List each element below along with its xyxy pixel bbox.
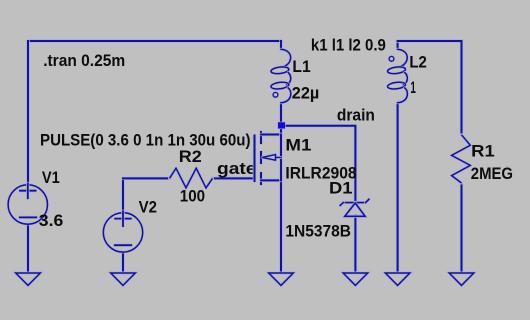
wire top rail right [398, 41, 462, 135]
value IRLR2908 [285, 165, 356, 183]
svg-text:D1: D1 [329, 180, 353, 198]
svg-text:R1: R1 [471, 143, 495, 161]
svg-text:1N5378B: 1N5378B [285, 223, 351, 241]
node gate label [217, 160, 257, 178]
label L1 [292, 58, 310, 76]
svg-text:1: 1 [410, 79, 416, 97]
wire M1 source lead [279, 180, 283, 272]
svg-text:gate: gate [217, 160, 257, 178]
wire V2 bottom lead [121, 252, 125, 272]
ground R1 [449, 273, 474, 285]
wire V2 top lead [121, 178, 125, 212]
wire drain net [281, 126, 355, 202]
label D1 [329, 180, 353, 198]
label M1 [285, 136, 311, 154]
wire V1 bottom lead [26, 224, 30, 272]
wire R1 bottom lead [460, 183, 464, 273]
value 22u [292, 84, 320, 102]
ground L2 [385, 273, 410, 285]
svg-text:3.6: 3.6 [39, 212, 63, 230]
svg-text:2MEG: 2MEG [471, 165, 513, 183]
svg-text:L2: L2 [409, 53, 427, 71]
wire L1 top lead [279, 41, 283, 49]
wire L1 bottom to M1 drain [279, 103, 283, 135]
label R2 [179, 148, 202, 166]
svg-text:M1: M1 [285, 136, 311, 154]
node drain label [337, 107, 375, 125]
label V2 [139, 198, 157, 216]
transistor M1 [255, 132, 282, 184]
svg-text:100: 100 [180, 188, 205, 206]
svg-text:.tran 0.25m: .tran 0.25m [43, 52, 125, 70]
svg-text:L1: L1 [292, 58, 310, 76]
value 3.6 [39, 212, 63, 230]
svg-text:PULSE(0 3.6 0 1n 1n 30u 60u): PULSE(0 3.6 0 1n 1n 30u 60u) [40, 131, 251, 149]
wire D1 anode lead [354, 216, 358, 273]
wire V1 top lead [26, 41, 30, 185]
resistor R1 [452, 135, 471, 183]
wire top rail left [28, 39, 281, 43]
voltage source V2 [103, 211, 142, 252]
wire L2 top lead [396, 41, 400, 49]
value 2MEG [471, 165, 513, 183]
value 1 [410, 79, 416, 97]
svg-text:k1 l1 l2 0.9: k1 l1 l2 0.9 [311, 37, 386, 55]
svg-text:R2: R2 [179, 148, 202, 166]
value 100 [180, 188, 205, 206]
value 1N5378B [285, 223, 351, 241]
resistor R2 [170, 168, 213, 188]
svg-text:V2: V2 [139, 198, 157, 216]
label V1 [42, 169, 60, 187]
diode D1 zener [340, 199, 369, 216]
value PULSE [40, 131, 251, 149]
node drain junction [277, 122, 285, 129]
ground D1 [343, 273, 368, 285]
directive k1 coupling [311, 37, 386, 55]
wire L2 bottom lead [396, 103, 400, 273]
ground V2 [111, 273, 136, 285]
svg-text:22µ: 22µ [292, 84, 320, 102]
ground V1 [16, 273, 41, 285]
wire V2 to R2 [123, 177, 170, 181]
directive .tran [43, 52, 125, 70]
svg-text:V1: V1 [42, 169, 60, 187]
label R1 [471, 143, 495, 161]
inductor L2 [387, 49, 407, 102]
voltage source V1 [8, 183, 47, 224]
svg-text:drain: drain [337, 107, 375, 125]
wire R2 to gate [213, 177, 255, 181]
inductor L1 [271, 49, 291, 102]
label L2 [409, 53, 427, 71]
ground M1 source [269, 273, 294, 285]
